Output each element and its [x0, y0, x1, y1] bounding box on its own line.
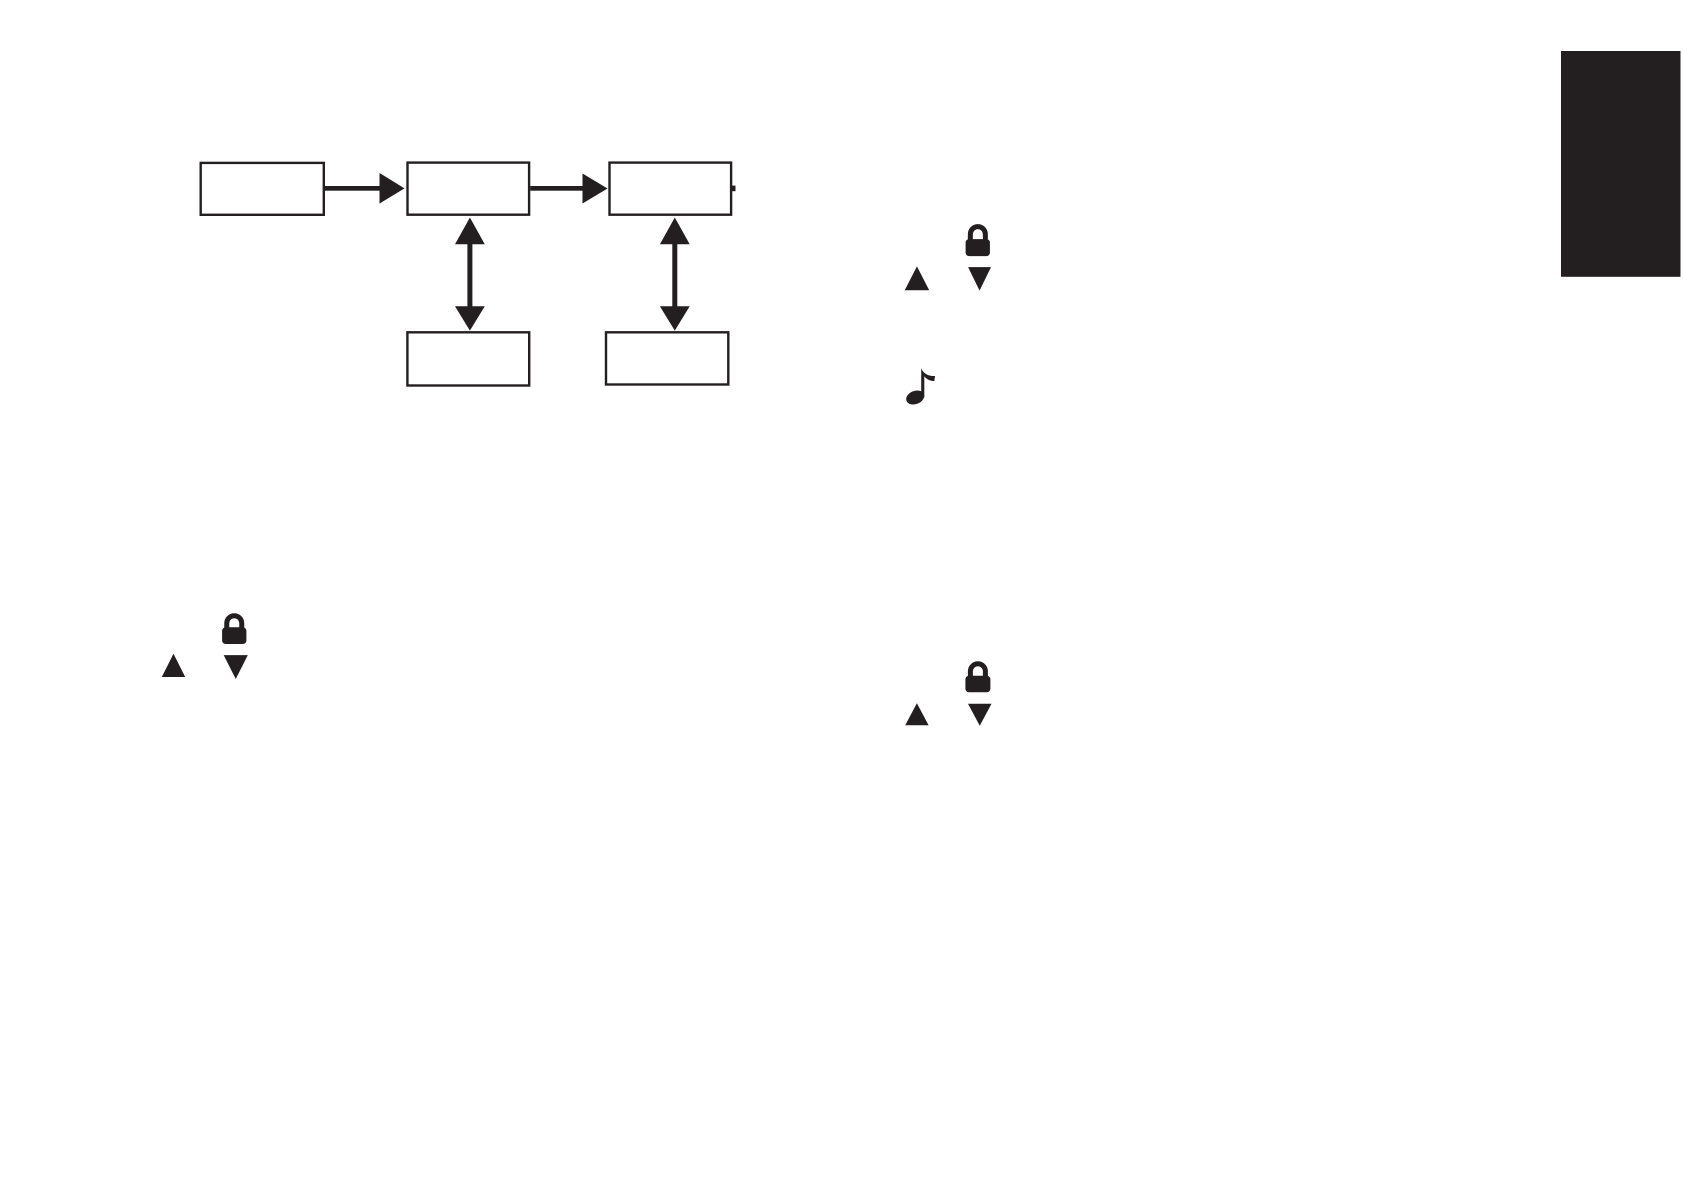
flowchart box 1 (top row, left) — [201, 163, 324, 215]
double arrow between box3 and box5 — [660, 218, 690, 331]
up triangle (top group) — [905, 266, 930, 290]
arrow stub on right edge of box 3 — [731, 186, 736, 192]
down triangle (bottom-left group) — [224, 655, 248, 679]
flowchart box 2 (top row, middle) — [408, 163, 530, 215]
flowchart box 5 (bottom row, right) — [606, 332, 728, 384]
double arrow between box2 and box4 — [455, 218, 485, 331]
up triangle (bottom-left group) — [162, 654, 185, 677]
lock icon (bottom-left group) — [222, 616, 246, 644]
arrow box1 to box2 — [325, 173, 405, 204]
up triangle (bottom-right group) — [905, 703, 928, 725]
down triangle (bottom-right group) — [968, 704, 992, 726]
lock icon (top group, right of center) — [966, 227, 990, 257]
music note (eighth note) — [904, 368, 935, 407]
flowchart box 4 (bottom row, left) — [407, 332, 529, 385]
lock icon (bottom-right group) — [965, 664, 990, 693]
black section tab (top right edge) — [1561, 51, 1681, 277]
flowchart box 3 (top row, right) — [610, 163, 732, 215]
arrow box2 to box3 — [530, 174, 607, 204]
down triangle (top group) — [968, 267, 991, 291]
